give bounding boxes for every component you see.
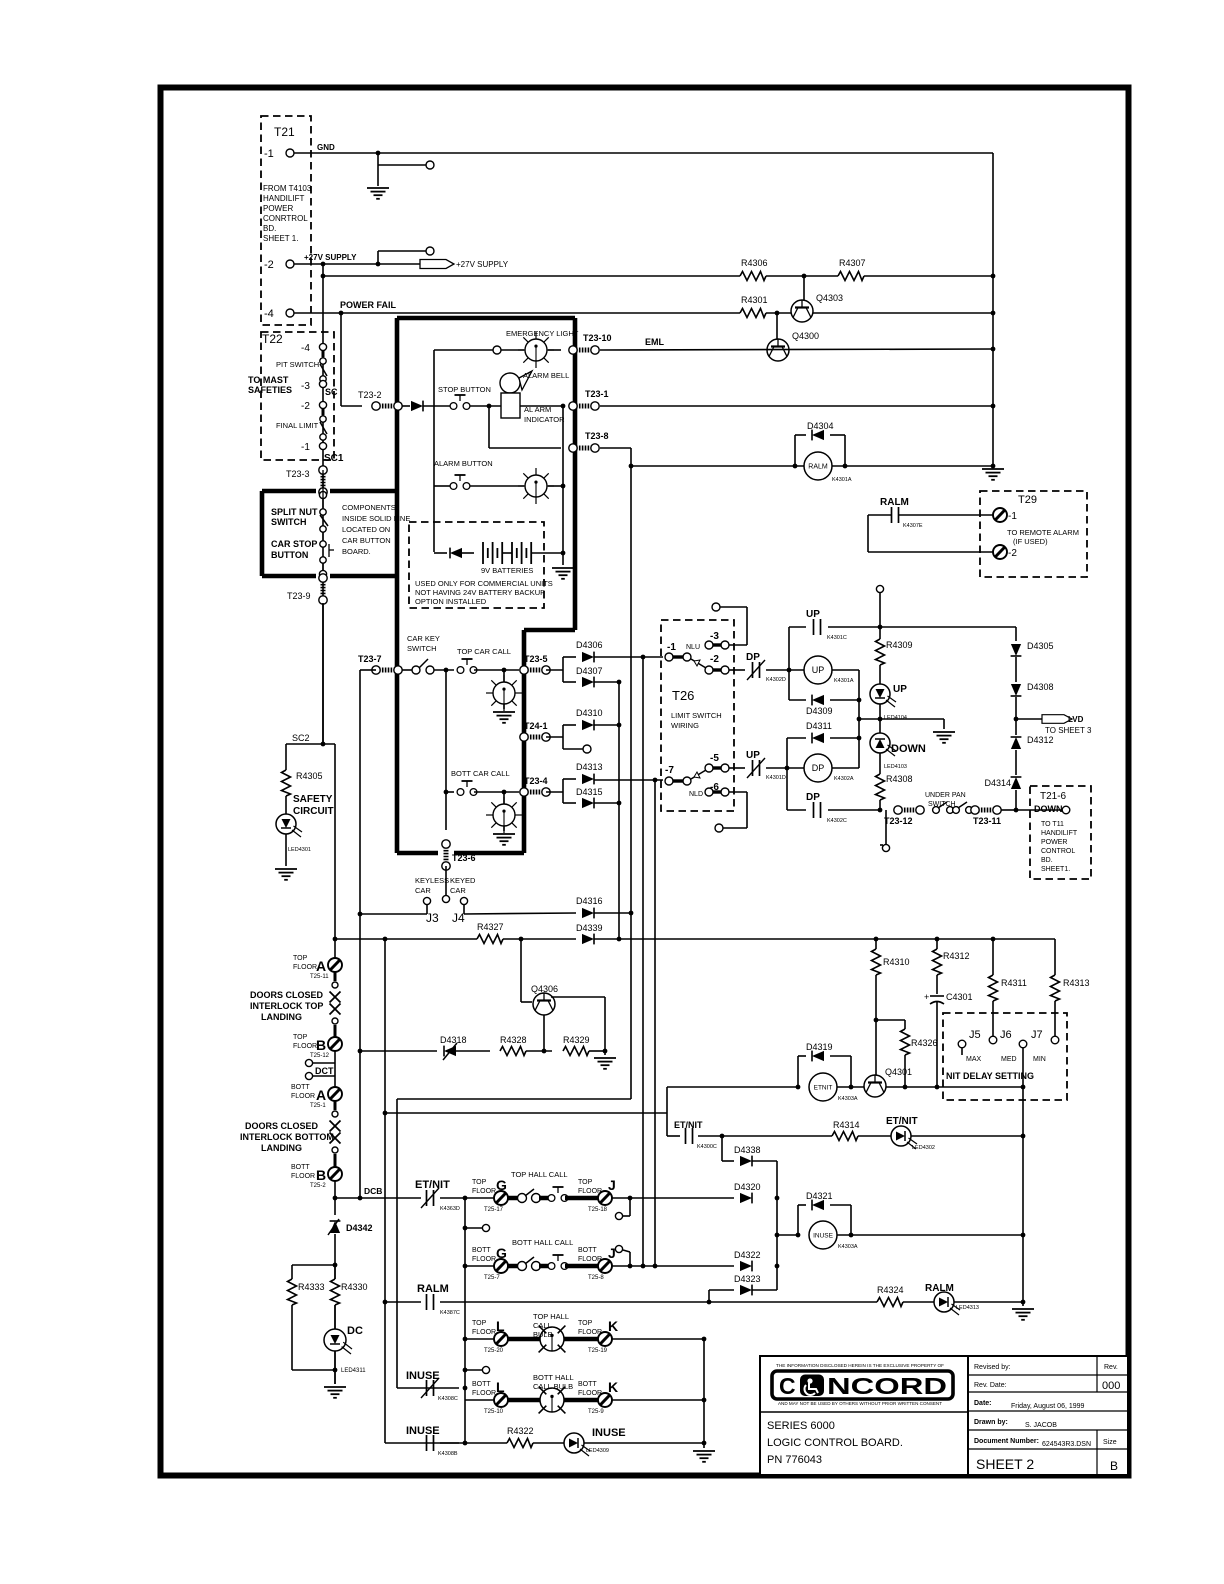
led DC LED4311 [324,1325,366,1374]
wire rail x655 [653,778,658,1269]
svg-text:NLU: NLU [686,644,700,651]
battery B2 [512,542,531,564]
wire DC led down [333,1351,338,1384]
node led chain top [876,585,883,592]
wire R4310 down [874,975,879,1075]
wire etnit coil right [837,1086,864,1088]
terminal T23-3 [286,466,327,496]
diode D4342 [328,1219,373,1235]
svg-text:K4302D: K4302D [766,677,786,683]
svg-text:T29: T29 [1018,494,1037,506]
svg-text:TO SHEET 3: TO SHEET 3 [1045,726,1092,735]
svg-text:DOWN: DOWN [1034,804,1063,814]
series text [767,1420,835,1432]
wire led4302 right [911,1135,1023,1137]
contact INUSE K4308B [406,1425,458,1457]
wire T23-8 to corner [600,447,631,449]
wire R4333 bypass [292,1265,335,1370]
alarm bell [500,371,569,393]
sheet field [976,1456,1034,1472]
svg-text:INTERLOCK TOP: INTERLOCK TOP [250,1001,323,1011]
top car call button [457,647,511,673]
svg-text:T23-12: T23-12 [884,816,913,826]
T22 chain node 2 [319,380,326,387]
svg-text:FLOOR: FLOOR [293,964,317,971]
svg-text:RALM: RALM [417,1283,449,1295]
pit switch [276,350,327,382]
date field [974,1400,1085,1410]
svg-text:TOP HALL: TOP HALL [533,1312,569,1321]
ground DC [324,1387,346,1398]
svg-text:BOTT HALL CALL: BOTT HALL CALL [512,1238,573,1247]
svg-text:B: B [316,1167,326,1183]
svg-text:POWER FAIL: POWER FAIL [340,300,397,310]
resistor R4314 [832,1120,860,1141]
svg-text:BD.: BD. [1041,857,1053,864]
svg-text:TOP: TOP [578,1179,593,1186]
svg-text:PN 776043: PN 776043 [767,1454,822,1466]
svg-text:HANDILIFT: HANDILIFT [263,194,304,203]
transistor Q4300 [767,331,819,361]
svg-text:MED: MED [1001,1056,1017,1063]
terminal T23-5 [520,654,550,674]
svg-text:FLOOR: FLOOR [472,1188,496,1195]
MAX MED MIN labels [966,1056,1046,1063]
svg-text:NOT HAVING 24V BATTERY BACKUP: NOT HAVING 24V BATTERY BACKUP [415,588,545,597]
svg-text:K: K [608,1318,618,1334]
svg-text:R4326: R4326 [911,1038,938,1048]
svg-text:K4308C: K4308C [438,1396,458,1402]
node T21-6 terminal [1062,806,1070,814]
wire led cross line [859,717,944,722]
relay DP K4302A [804,754,854,782]
svg-text:-2: -2 [264,259,274,271]
wire 27V stub up [376,251,381,266]
resistor R4313 [1051,939,1090,1001]
svg-text:BUTTON: BUTTON [271,550,308,560]
svg-text:DP: DP [812,763,825,773]
wire power fail drop [339,311,344,406]
svg-text:TO MAST: TO MAST [248,375,289,385]
terminal block T21-6 outline [1030,786,1091,879]
battery box outline [409,522,544,608]
wire to T23-2 [341,405,362,407]
svg-text:T23-6: T23-6 [452,853,476,863]
wire dcb to G [440,1196,495,1201]
svg-text:K4303A: K4303A [838,1244,858,1250]
led DOWN LED4103 [870,733,926,770]
led RALM LED4313 [925,1283,979,1315]
jumper pin J7 [1019,1040,1027,1048]
svg-text:COMPONENTS: COMPONENTS [342,503,396,512]
wire r4328 right [526,1050,552,1052]
svg-text:CONRTROL: CONRTROL [263,214,308,223]
NIT DELAY SETTING label [946,1071,1034,1081]
wire d4318 to r4328 [456,1050,490,1052]
net label EML [645,337,665,347]
terminal T23-1 [569,389,609,410]
wire J7 down [1022,1048,1024,1087]
svg-text:CIRCUIT: CIRCUIT [293,806,334,817]
svg-text:Date:: Date: [974,1400,992,1407]
net label GND [317,143,335,152]
svg-text:-5: -5 [710,753,719,764]
svg-text:K: K [608,1379,618,1395]
svg-text:INUSE: INUSE [813,1232,834,1239]
wire DP drop [786,738,788,810]
svg-text:K4303A: K4303A [838,1096,858,1102]
svg-text:000: 000 [1102,1380,1120,1392]
wire J stub [623,1198,630,1216]
wire 27V bus [321,274,993,279]
T22 chain node 1 [319,343,326,350]
wire R4308 down [878,800,883,812]
wire D4310 to rail [594,723,621,728]
terminal block T22 outline [261,332,334,460]
svg-text:T26: T26 [672,688,694,703]
svg-text:LIMIT SWITCH: LIMIT SWITCH [671,711,722,720]
resistor R4305 [282,770,323,796]
wire DP coil right [832,767,859,769]
wire interlock mid [334,1051,336,1087]
off-page arrow +27V [420,260,454,269]
T22 pin -4 label [301,343,310,354]
svg-text:R4310: R4310 [883,957,910,967]
svg-text:-1: -1 [301,442,310,453]
wire D4307 to rail [594,680,621,685]
wire into T21-6 [1016,809,1062,811]
revised by field [974,1364,1011,1371]
svg-text:T23-2: T23-2 [358,390,382,400]
diode D4321 bypass [796,1191,854,1237]
diode D4308 [1011,682,1054,696]
wire bus to resistor bank [594,937,1055,942]
svg-text:+27V SUPPLY: +27V SUPPLY [456,260,509,269]
wire Q4301 right [886,1085,1025,1090]
svg-text:-3: -3 [710,631,719,642]
wire thick K2 [564,1398,599,1403]
svg-text:UP: UP [806,609,820,620]
screw T25-11 [293,955,342,980]
terminal T23-10 [569,333,612,354]
svg-text:T21: T21 [274,125,295,139]
svg-text:T25-2: T25-2 [310,1183,326,1189]
svg-text:D4338: D4338 [734,1145,761,1155]
svg-text:TO T11: TO T11 [1041,821,1064,828]
wire bott hall line [463,1264,495,1269]
svg-text:K4302C: K4302C [827,818,847,824]
diode D4310 [563,708,603,730]
svg-text:T25-8: T25-8 [588,1275,604,1281]
wire -3 stub [720,607,747,645]
net label SC2 [292,733,310,743]
svg-text:RALM: RALM [808,464,828,471]
svg-text:R4329: R4329 [563,1035,590,1045]
svg-text:Q4300: Q4300 [792,331,819,341]
node keyed center pin [442,895,449,902]
svg-text:THE INFORMATION DISCLOSED HERE: THE INFORMATION DISCLOSED HEREIN IS THE … [776,1363,944,1368]
wire chain to DCB [333,1181,338,1215]
wire D4313 riser [562,779,564,803]
led UP LED4104 [870,684,907,721]
car stop box outline [262,491,397,576]
wire ground stub vertical [376,151,381,186]
svg-text:LED4309: LED4309 [586,1448,609,1454]
svg-text:CAR BUTTON: CAR BUTTON [342,536,391,545]
svg-text:T23-5: T23-5 [524,654,548,664]
terminal block T29 outline [980,491,1087,577]
svg-text:SHEET1.: SHEET1. [1041,866,1070,873]
terminal T23-8 [569,431,609,452]
svg-text:T23-9: T23-9 [287,591,311,601]
svg-text:AND MAY NOT BE USED BY OTHERS: AND MAY NOT BE USED BY OTHERS WITHOUT PR… [778,1401,942,1406]
diode D4319 bypass [796,1042,854,1089]
svg-text:TOP HALL CALL: TOP HALL CALL [511,1170,568,1179]
svg-text:R4314: R4314 [833,1120,860,1130]
svg-text:Q4306: Q4306 [531,984,558,994]
svg-text:R4328: R4328 [500,1035,527,1045]
svg-text:ET/NIT: ET/NIT [415,1179,450,1191]
svg-text:INDICATOR: INDICATOR [524,415,565,424]
diode D4313 [563,762,603,784]
T22 chain node 4 [319,442,326,449]
contact INUSE K4308C [406,1370,458,1402]
svg-text:SAFETY: SAFETY [293,794,333,805]
T21 pin -1 label [264,148,274,160]
wire Q4300 base [775,311,780,339]
net label SC1 [324,453,344,464]
svg-text:BOTT: BOTT [578,1247,597,1254]
T29 screw -1 [993,508,1017,522]
svg-text:D4311: D4311 [806,721,832,731]
svg-text:HANDILIFT: HANDILIFT [1041,830,1078,837]
DOORS CLOSED BOTTOM label [240,1121,334,1153]
node stub terminal 2 [426,247,434,255]
contact ETNIT K4300C [667,1120,717,1150]
terminal T23-9 [287,574,327,604]
title row lines [968,1375,1128,1449]
resistor R4322 [507,1426,534,1448]
svg-text:BOTT: BOTT [578,1381,597,1388]
svg-text:BD.: BD. [263,224,276,233]
T21 pin -4 label [264,308,274,320]
wire RALM line [631,465,993,467]
svg-text:D4310: D4310 [576,708,603,718]
diode D4323 [709,1274,777,1295]
svg-text:T25-10: T25-10 [484,1409,504,1415]
T26 pin -7 [665,765,691,785]
svg-text:DP: DP [806,792,820,803]
wire T24-1 stub [563,748,584,750]
svg-text:LED4311: LED4311 [341,1368,366,1374]
svg-text:R4333: R4333 [298,1282,325,1292]
svg-text:UP: UP [746,750,760,761]
T26 sublabel [671,711,722,730]
svg-text:K4301A: K4301A [834,678,854,684]
svg-text:FINAL LIMIT: FINAL LIMIT [276,421,319,430]
svg-text:+: + [924,992,929,1002]
svg-text:FLOOR: FLOOR [578,1256,602,1263]
svg-text:UNDER PAN: UNDER PAN [925,792,966,799]
svg-text:STOP BUTTON: STOP BUTTON [438,385,491,394]
diode D4316 [576,896,603,918]
wire stop to indicator [470,404,501,409]
svg-text:BULB: BULB [533,1330,553,1339]
terminal T23-7 [358,654,402,674]
svg-text:T24-1: T24-1 [524,721,548,731]
wire diode chain top [1015,627,1017,641]
svg-text:Friday, August 06, 1999: Friday, August 06, 1999 [1011,1403,1085,1410]
NLD label [689,791,703,798]
transistor Q4306 [531,984,558,1015]
wire right drop rail [1021,1087,1026,1306]
svg-text:T23-1: T23-1 [585,389,609,399]
led INUSE LED4309 [564,1427,626,1456]
svg-text:OPTION INSTALLED: OPTION INSTALLED [415,597,487,606]
car stop button [320,532,334,570]
svg-text:T25-7: T25-7 [484,1275,500,1281]
svg-text:CONTROL: CONTROL [1041,848,1075,855]
svg-text:INUSE: INUSE [406,1425,440,1437]
svg-text:G: G [496,1177,507,1193]
svg-text:NLD: NLD [689,791,703,798]
svg-text:INSIDE SOLID LINE: INSIDE SOLID LINE [342,514,410,523]
terminal T23-6 [442,840,476,870]
title block outline [760,1356,1128,1475]
wire rail x397 [396,1099,398,1388]
wire D4315 to rail [594,801,621,806]
svg-text:INUSE: INUSE [592,1427,626,1439]
svg-text:-3: -3 [301,381,310,392]
screw T25-17 [472,1177,508,1213]
node J2 stub [615,1245,622,1252]
wire 27V stub branch [378,250,427,252]
jumper pin MIN [1051,1036,1059,1044]
wire Q4306 emitter [542,1015,547,1053]
jumper pin J5 [958,1040,966,1055]
svg-text:FLOOR: FLOOR [472,1256,496,1263]
svg-text:D4314: D4314 [984,778,1011,788]
svg-text:S. JACOB: S. JACOB [1025,1422,1057,1429]
wire switch link2 [539,1264,549,1269]
wire Q4303 collector [802,274,807,300]
svg-text:D4339: D4339 [576,923,603,933]
wire ralm line right [440,1301,877,1303]
wire feed riser x667 [666,1087,668,1136]
resistor R4311 [989,939,1027,1001]
terminal block T21 outline [261,116,311,325]
transistor Q4303 [791,293,843,322]
wire battery right [531,552,563,554]
screw T25-20 [472,1318,508,1354]
contact UP K4301D [746,750,786,781]
wire rail x465 [463,1198,468,1445]
svg-text:TOP: TOP [293,955,308,962]
wire SC2 header [286,742,335,747]
wire UP contact top line [789,625,1016,630]
wire EML bus [600,349,993,350]
wire inuse line left [777,1234,797,1236]
node underpan stub [882,844,889,851]
wire T23-11 right [1001,808,1018,813]
svg-text:SWITCH: SWITCH [407,644,437,653]
net label DCB [364,1186,382,1196]
J5 label [969,1029,981,1041]
wire led to led [879,704,881,733]
diode D4338 [722,1145,761,1166]
svg-text:MAX: MAX [966,1056,982,1063]
bott car call button [451,769,510,795]
svg-text:R4324: R4324 [877,1285,904,1295]
wire C4301 down [935,1002,940,1089]
screw T25-1 [291,1084,342,1109]
wire T23-7 left rail [359,670,361,1198]
wire T23-8 corner down [630,448,632,467]
wire T23-6 stub [445,866,447,895]
svg-text:SPLIT NUT: SPLIT NUT [271,507,318,517]
resistor R4328 [500,1035,527,1056]
svg-text:CALL BULB: CALL BULB [533,1382,573,1391]
wire thick J [565,1196,599,1201]
node stub terminal [426,161,434,169]
wire -6 stub [723,792,747,828]
resistor R4309 [876,639,913,665]
jumper pin J6 [989,1036,997,1044]
relay ETNIT K4303A [809,1073,858,1102]
wire D4338 right [752,1160,777,1162]
resistor R4306 [740,258,768,281]
J7 label [1031,1029,1043,1041]
wire etnit line left [667,1086,797,1088]
capacitor C4301 [924,975,973,1004]
rev date field [974,1382,1007,1389]
svg-text:FLOOR: FLOOR [578,1390,602,1397]
jumper J3 [423,897,439,925]
T26 pin -3 [705,631,729,649]
diode D4305 [1011,641,1054,656]
svg-text:FLOOR: FLOOR [578,1329,602,1336]
svg-text:Rev. Date:: Rev. Date: [974,1382,1007,1389]
wire key to button [402,668,454,673]
svg-text:J5: J5 [969,1029,981,1041]
T29 label [1018,494,1037,506]
T22 label [262,332,283,346]
T21 label [274,125,295,139]
screw T25-18 [578,1177,616,1213]
svg-text:Q4301: Q4301 [885,1067,912,1077]
svg-text:K4387C: K4387C [440,1310,460,1316]
ground battery [552,568,574,579]
T21 pin -2 terminal [286,260,294,268]
svg-text:-1: -1 [667,642,676,653]
svg-text:USED ONLY FOR COMMERCIAL UNITS: USED ONLY FOR COMMERCIAL UNITS [415,579,553,588]
contact RALM K4307E [880,497,923,529]
wire battery ground stem [561,551,566,565]
interlock chain top [330,972,341,1037]
svg-text:FLOOR: FLOOR [291,1093,315,1100]
resistor R4307 [838,258,866,281]
wire safety branch [285,744,287,770]
wire LVD stub [1016,718,1042,720]
svg-text:DCT: DCT [315,1066,334,1076]
wire relay right rail [857,670,862,768]
svg-text:CALL: CALL [533,1321,552,1330]
wire LED to ground [285,834,287,866]
terminal T23-12 [884,806,924,826]
wire interlock rail upper [334,744,336,958]
alarm indicator [501,393,565,424]
svg-text:D4321: D4321 [806,1191,833,1201]
